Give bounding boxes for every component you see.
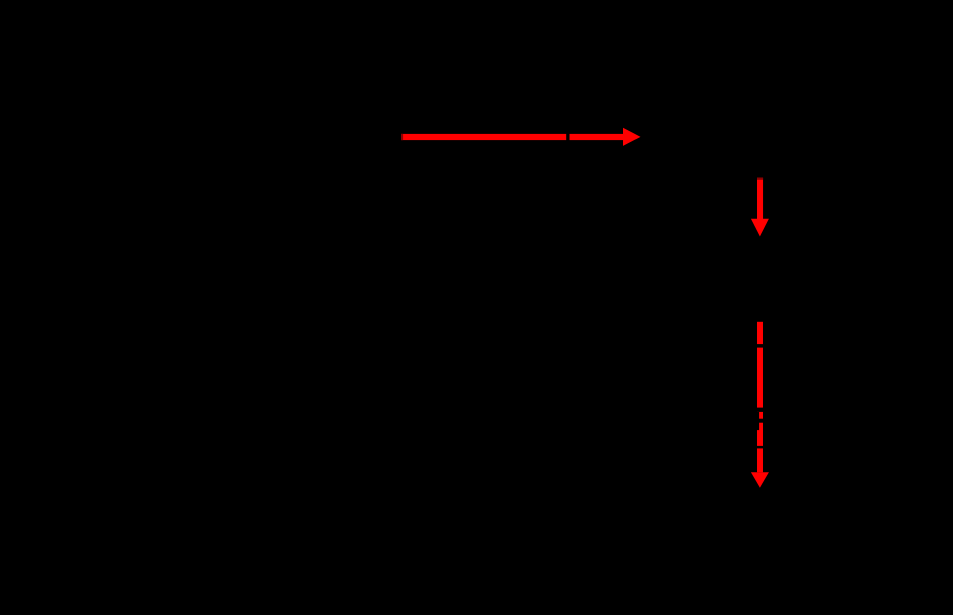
gap 4 in long arrow: [755, 446, 765, 449]
gap 1 in long arrow: [755, 344, 765, 348]
red horizontal arrow (left to right): [401, 128, 641, 146]
left notch in long arrow: [755, 412, 759, 430]
gap in horizontal arrow (black ink overlap): [566, 132, 569, 143]
red short vertical arrow (downward): [751, 178, 769, 237]
red long vertical arrow (downward, with overlapped gaps): [751, 322, 769, 488]
gap 3 in long arrow: [755, 419, 765, 423]
gap 2 in long arrow: [755, 408, 765, 412]
